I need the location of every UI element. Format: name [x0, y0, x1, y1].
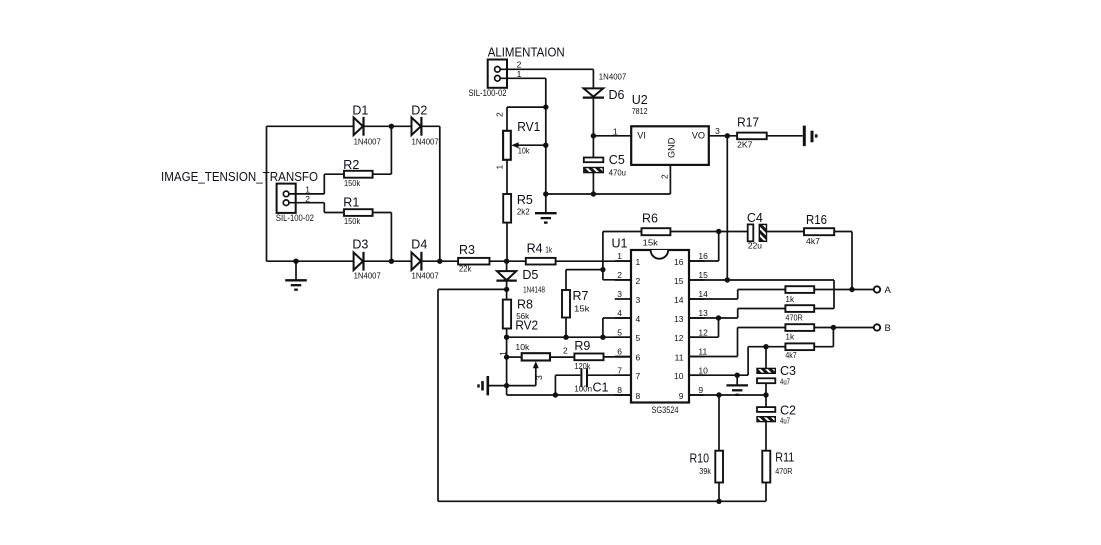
svg-text:C4: C4	[747, 211, 763, 225]
svg-text:R16: R16	[806, 213, 827, 227]
resistor R5 2k2	[503, 193, 533, 223]
svg-text:R6: R6	[642, 212, 658, 226]
pin 1 stub	[615, 260, 631, 262]
wire U2 GND pin 2	[669, 165, 671, 194]
ground (pin 10)	[735, 373, 740, 378]
svg-text:4k7: 4k7	[806, 236, 820, 246]
potentiometer RV2 10k	[498, 318, 568, 385]
connector J2 ALIMENTAION SIL-100-02	[469, 46, 565, 98]
svg-text:22u: 22u	[748, 240, 762, 250]
svg-text:100n: 100n	[574, 384, 592, 394]
wire R17 to earth	[767, 135, 803, 137]
svg-text:14: 14	[674, 295, 684, 305]
pin 3 stub	[615, 298, 631, 300]
svg-text:D5: D5	[522, 268, 538, 282]
svg-text:15k: 15k	[643, 238, 659, 248]
pin 11 stub	[689, 356, 705, 358]
svg-text:15: 15	[674, 276, 684, 286]
svg-text:2: 2	[563, 346, 568, 356]
diode D1	[352, 104, 381, 147]
resistor 470R (A)	[785, 305, 814, 322]
resistor R16 4k7	[804, 213, 852, 246]
svg-text:4u7: 4u7	[780, 416, 790, 426]
svg-text:VO: VO	[692, 130, 705, 140]
svg-text:150k: 150k	[344, 178, 361, 188]
node R8 bottom row	[504, 335, 509, 340]
wire D6 to VI node	[592, 98, 594, 136]
svg-text:R5: R5	[517, 193, 533, 207]
diode D5 1N4148	[496, 261, 545, 294]
svg-text:VI: VI	[637, 130, 646, 140]
regulator U2 7812	[631, 93, 709, 165]
resistor 1k (A)	[785, 286, 814, 304]
svg-text:150k: 150k	[344, 216, 361, 226]
resistor R2 150k	[343, 158, 372, 188]
wire bottom row	[267, 260, 354, 262]
svg-text:R9: R9	[574, 339, 590, 353]
wire pin15 row	[689, 279, 834, 281]
diode D3	[352, 238, 381, 281]
svg-text:1: 1	[636, 257, 641, 267]
wire VI line	[593, 135, 631, 137]
svg-text:4: 4	[617, 308, 622, 318]
svg-text:470R: 470R	[775, 466, 792, 476]
pin 15 stub	[689, 279, 705, 281]
svg-text:470R: 470R	[785, 313, 802, 323]
capacitor C4 22u	[747, 211, 804, 251]
svg-text:ALIMENTAION: ALIMENTAION	[488, 46, 565, 60]
svg-text:10k: 10k	[515, 342, 530, 352]
wire 1k to A terminal	[814, 289, 874, 291]
svg-text:C1: C1	[593, 381, 609, 395]
resistor R8 56k	[503, 289, 533, 337]
svg-text:11: 11	[698, 347, 707, 357]
svg-text:R7: R7	[573, 289, 589, 303]
node pin15/VCC	[725, 277, 730, 282]
wire connector pin2 to R1	[289, 202, 324, 204]
svg-text:D2: D2	[411, 104, 427, 118]
svg-text:D4: D4	[411, 238, 427, 252]
pin 6 stub	[615, 356, 631, 358]
svg-text:1N4007: 1N4007	[354, 137, 381, 147]
svg-text:4: 4	[636, 314, 641, 324]
svg-text:12: 12	[674, 333, 684, 343]
resistor R6 15k	[603, 212, 748, 248]
svg-text:6: 6	[617, 347, 622, 357]
node R6/C4/pin16	[716, 229, 721, 234]
svg-text:120k: 120k	[574, 361, 591, 371]
svg-text:D1: D1	[352, 104, 368, 118]
pin 7 stub	[615, 374, 631, 376]
resistor R9 120k	[550, 339, 631, 371]
resistor R4 1k	[526, 242, 556, 265]
svg-text:2K7: 2K7	[737, 139, 753, 149]
node D3-D4 junction	[389, 259, 394, 264]
svg-text:2: 2	[517, 60, 522, 70]
svg-text:470u: 470u	[609, 168, 626, 178]
svg-text:2: 2	[617, 270, 622, 280]
pin 2 stub	[615, 279, 631, 281]
svg-text:6: 6	[636, 352, 641, 362]
svg-text:SIL-100-02: SIL-100-02	[276, 213, 314, 223]
svg-text:R2: R2	[343, 158, 359, 172]
svg-text:2: 2	[660, 174, 670, 179]
wire R5 to R3/R4 node	[506, 223, 508, 262]
svg-text:5: 5	[636, 333, 641, 343]
svg-text:GND: GND	[667, 137, 677, 158]
pin 12 stub	[689, 336, 705, 338]
wire pin13 jog	[689, 317, 738, 319]
svg-text:3: 3	[534, 375, 544, 380]
wire VCC drop to pin 15	[726, 136, 728, 280]
svg-text:A: A	[885, 285, 892, 296]
wire pin10 to 4k7	[689, 374, 748, 376]
node R3/R4/R5/D5	[504, 259, 509, 264]
svg-text:15k: 15k	[574, 304, 590, 314]
wire 470R up to pin15 row	[814, 308, 834, 310]
svg-text:3: 3	[617, 289, 622, 299]
svg-text:4u7: 4u7	[780, 377, 790, 387]
pin 4 stub	[615, 317, 631, 319]
wire ground row to U1 pin 8	[506, 386, 508, 395]
node B terminal	[874, 323, 891, 334]
svg-text:1: 1	[498, 351, 508, 356]
connector J1 SIL-100-02	[276, 184, 314, 223]
svg-text:22k: 22k	[459, 263, 472, 273]
svg-text:13: 13	[674, 314, 684, 324]
svg-text:1k: 1k	[785, 294, 794, 304]
diode D2	[411, 104, 439, 147]
svg-text:1N4007: 1N4007	[412, 137, 439, 147]
pin 9 stub	[689, 394, 705, 396]
pin 16 stub	[689, 260, 705, 262]
wire VO to R17	[709, 135, 737, 137]
svg-text:1N4007: 1N4007	[599, 71, 627, 81]
svg-text:R3: R3	[459, 243, 475, 257]
ground (transformer)	[293, 259, 298, 264]
svg-text:2: 2	[495, 112, 505, 117]
diode D4	[411, 238, 439, 281]
resistor R10 39k	[690, 395, 724, 501]
wire R16 down to node A	[851, 232, 853, 290]
wire top row	[267, 125, 354, 127]
resistor R1 150k	[343, 195, 372, 226]
svg-text:4k7: 4k7	[785, 350, 797, 360]
svg-text:8: 8	[617, 385, 622, 395]
svg-text:12: 12	[698, 327, 708, 337]
wire pin14 jog	[689, 298, 738, 300]
node D1-D2 junction	[389, 124, 394, 129]
svg-text:1k: 1k	[545, 245, 552, 255]
node 4k7/C3	[763, 344, 768, 349]
resistor R7 15k	[562, 270, 603, 338]
wire left rail	[266, 126, 268, 261]
wire ALIM pin2 to D6	[500, 68, 593, 70]
wire R4 to U1 pin 1	[556, 260, 631, 262]
svg-text:R17: R17	[737, 115, 759, 129]
wire ALIM pin1 down rail	[500, 77, 546, 79]
svg-text:10k: 10k	[518, 145, 530, 155]
resistor 4k7 (B)	[785, 343, 814, 360]
svg-text:1N4148: 1N4148	[523, 285, 545, 295]
svg-text:7: 7	[636, 371, 641, 381]
earth (right)	[804, 126, 816, 147]
svg-text:5: 5	[617, 327, 622, 337]
svg-text:1: 1	[305, 184, 310, 194]
wire ground rail under C5	[546, 193, 671, 195]
svg-text:3: 3	[636, 295, 641, 305]
svg-text:SG3524: SG3524	[652, 405, 679, 415]
svg-text:RV1: RV1	[517, 120, 540, 134]
svg-text:7: 7	[617, 365, 622, 375]
node D5 cathode	[504, 287, 509, 292]
svg-text:1: 1	[613, 127, 618, 137]
capacitor C5 470u	[584, 136, 626, 194]
svg-text:9: 9	[698, 385, 703, 395]
svg-text:SIL-100-02: SIL-100-02	[469, 88, 507, 98]
svg-text:15: 15	[698, 270, 708, 280]
svg-text:B: B	[885, 323, 891, 334]
resistor R17 2K7	[737, 115, 767, 149]
wire feedback loop left/bottom	[438, 288, 507, 290]
wire R3 to R4	[490, 260, 526, 262]
svg-text:39k: 39k	[699, 466, 711, 476]
svg-text:16: 16	[674, 257, 684, 267]
svg-text:11: 11	[675, 352, 684, 362]
capacitor C3 4u7	[757, 347, 796, 395]
svg-text:1N4007: 1N4007	[412, 271, 439, 281]
resistor R3 22k	[458, 243, 489, 273]
svg-text:13: 13	[698, 308, 708, 318]
node R6/R7 to pin2	[600, 267, 605, 272]
svg-text:1N4007: 1N4007	[354, 271, 381, 281]
svg-text:16: 16	[698, 251, 708, 261]
op-amp U1 SG3524	[612, 237, 690, 415]
wire right drop D2 to lower row	[439, 126, 441, 261]
svg-text:9: 9	[679, 391, 684, 401]
svg-text:2k2: 2k2	[517, 207, 530, 217]
wire pin11 jog	[689, 356, 738, 358]
wire 4k7 up to node B	[814, 346, 833, 348]
pin 8 stub	[615, 394, 631, 396]
svg-text:1k: 1k	[785, 332, 794, 342]
wire 1k to B terminal	[814, 327, 874, 329]
svg-text:IMAGE_TENSION_TRANSFO: IMAGE_TENSION_TRANSFO	[161, 169, 318, 184]
node D2/D4 output junction	[437, 259, 442, 264]
svg-text:C5: C5	[609, 153, 625, 167]
svg-text:10: 10	[674, 371, 684, 381]
ground (supply)	[545, 194, 547, 213]
svg-text:U1: U1	[612, 237, 628, 251]
node pin4/5 tie	[600, 335, 605, 340]
svg-text:8: 8	[636, 391, 641, 401]
diode D6	[583, 71, 627, 102]
svg-text:1: 1	[495, 165, 505, 170]
wire pin12/13 tie	[718, 318, 720, 337]
svg-text:R1: R1	[343, 195, 359, 209]
svg-text:D3: D3	[352, 238, 368, 252]
wire pin9 row	[689, 394, 766, 396]
node RV2 ground	[504, 383, 509, 388]
wire connector pin1 to R2	[289, 193, 324, 195]
svg-text:R11: R11	[775, 451, 794, 465]
svg-text:2: 2	[636, 276, 641, 286]
svg-text:R4: R4	[527, 242, 543, 256]
svg-text:3: 3	[715, 126, 720, 136]
wire R1 to D3-D4 node	[373, 212, 392, 214]
capacitor C1 100n	[555, 368, 631, 395]
svg-text:1: 1	[617, 251, 622, 261]
wire R2 feedback	[390, 126, 392, 174]
pin 5 stub	[615, 336, 631, 338]
svg-text:R10: R10	[690, 452, 710, 466]
svg-text:D6: D6	[609, 88, 625, 102]
earth (analog, left)	[479, 376, 536, 395]
resistor 1k (B)	[785, 324, 814, 342]
pin 14 stub	[689, 298, 705, 300]
pin 10 stub	[689, 374, 705, 376]
junction dots on +V rail	[543, 104, 548, 109]
potentiometer RV1 10k	[495, 107, 546, 194]
svg-text:RV2: RV2	[515, 318, 538, 332]
node R10 bottom rail	[716, 499, 721, 504]
svg-text:10: 10	[698, 365, 708, 375]
resistor R11 470R	[762, 451, 794, 502]
svg-text:14: 14	[698, 289, 708, 299]
svg-text:7812: 7812	[632, 106, 648, 116]
svg-text:R8: R8	[517, 297, 533, 311]
pin 13 stub	[689, 317, 705, 319]
capacitor C2 4u7	[757, 395, 796, 451]
node A terminal	[874, 285, 892, 296]
